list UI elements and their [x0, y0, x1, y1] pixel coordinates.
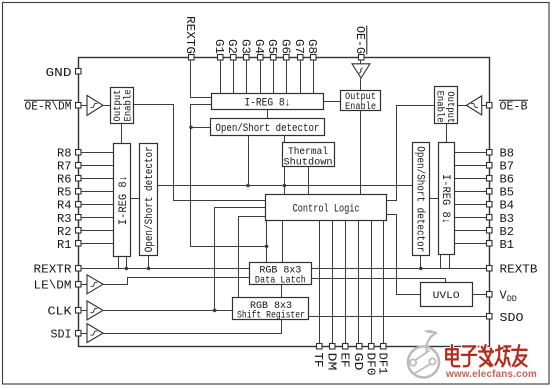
svg-text:Data Latch: Data Latch: [255, 275, 306, 287]
watermark text 电子发烧友: [446, 345, 526, 366]
wire TF: [319, 221, 321, 344]
wire G6: [286, 61, 288, 94]
block Open/Short detector G: [211, 119, 325, 136]
wire G status to Open/Short and Data Latch: [191, 105, 267, 247]
svg-text:DF1: DF1: [375, 353, 389, 375]
pin R6: [57, 173, 81, 187]
wire G enable to I-REG: [324, 101, 341, 103]
svg-text:B4: B4: [500, 199, 515, 213]
wire OE-R buffer to enable box: [103, 105, 111, 107]
pin DF1: [375, 344, 389, 375]
wire R2: [82, 230, 114, 232]
svg-text:www.elecfans.com: www.elecfans.com: [445, 369, 537, 380]
wire I-REG G to Open/Short G link: [267, 110, 269, 119]
pin B5: [487, 186, 515, 200]
block Output Enable G: [341, 91, 381, 113]
wire I-REG B stub b: [449, 255, 451, 269]
junction: [265, 245, 269, 249]
svg-text:G1: G1: [212, 39, 226, 54]
wire R4: [82, 204, 114, 206]
wire I-REG R stub b: [126, 257, 128, 269]
pin R4: [57, 199, 81, 213]
block Output Enable R: [111, 88, 135, 124]
pin B8: [487, 146, 515, 160]
pin LE/DM: [34, 279, 82, 293]
svg-text:OE-G: OE-G: [353, 26, 367, 54]
svg-text:UVLO: UVLO: [433, 290, 460, 302]
wire Control Logic to UVLO: [387, 215, 421, 295]
wire REXTB: [312, 268, 487, 270]
svg-text:Control Logic: Control Logic: [293, 204, 360, 216]
pin DM: [324, 344, 338, 371]
svg-text:R3: R3: [57, 212, 72, 226]
wire DF0: [371, 221, 373, 344]
block UVLO: [421, 283, 473, 307]
wire DF1: [383, 221, 385, 344]
buffer OE-B: [466, 96, 481, 115]
pin G4: [252, 39, 266, 60]
wire EF: [345, 221, 347, 344]
pin GD: [351, 344, 365, 371]
buffer OE-R: [87, 95, 103, 115]
pin SDO: [487, 311, 524, 325]
svg-text:R8: R8: [57, 146, 72, 160]
pin TF: [311, 344, 325, 368]
block I-REG R: [114, 144, 131, 257]
junction: [125, 267, 129, 271]
wire R7: [82, 165, 114, 167]
junction: [189, 126, 193, 130]
wire I-REG R to Open/Short link: [131, 198, 140, 200]
pin R5: [57, 186, 81, 200]
pin DF0: [363, 344, 377, 376]
wire SDI input: [82, 333, 87, 335]
svg-text:DF0: DF0: [363, 353, 377, 376]
wire Open/Short G stub: [191, 127, 211, 129]
svg-text:G8: G8: [305, 39, 319, 54]
wire LE input: [82, 284, 87, 286]
wire Data Latch to UVLO: [312, 279, 446, 283]
svg-text:G3: G3: [239, 39, 253, 54]
wire B8: [455, 152, 487, 154]
wire B3: [455, 217, 487, 219]
buffer OE-G: [352, 64, 370, 78]
pin R1: [57, 238, 81, 252]
wire OE-B buffer to enable box: [458, 105, 467, 107]
wire Data Latch to Shift Register: [281, 285, 283, 298]
svg-text:B3: B3: [500, 212, 515, 226]
pin CLK: [48, 305, 82, 319]
pin REXTR: [34, 263, 82, 277]
wire B5: [455, 191, 487, 193]
svg-text:SDO: SDO: [500, 311, 524, 325]
buffer LE: [87, 275, 103, 294]
svg-text:I-REG 8↓: I-REG 8↓: [118, 175, 130, 225]
pin REXTG: [183, 16, 197, 60]
pin B2: [487, 225, 515, 239]
pin GND: [46, 66, 82, 80]
wire G8: [313, 61, 315, 94]
svg-text:SDI: SDI: [51, 327, 72, 341]
pin OE-R/DM: [24, 100, 81, 114]
wire OE-G pin to buffer: [360, 61, 362, 64]
svg-text:Output: Output: [444, 91, 455, 123]
wire DM: [332, 221, 334, 344]
wire B2: [455, 230, 487, 232]
pin B7: [487, 159, 515, 173]
svg-text:REXTB: REXTB: [500, 263, 538, 277]
wire Open/Short detector output a: [248, 136, 250, 186]
pin R3: [57, 212, 81, 226]
wire Control Logic to Data Latch: [282, 221, 284, 263]
svg-text:G4: G4: [252, 39, 266, 54]
block Open/Short detector R: [140, 144, 158, 256]
svg-text:R7: R7: [57, 159, 72, 173]
svg-text:LE\DM: LE\DM: [34, 279, 72, 293]
pin R2: [57, 225, 81, 239]
svg-text:B7: B7: [500, 159, 515, 173]
wire VDD: [473, 294, 487, 296]
svg-text:DM: DM: [324, 353, 338, 371]
svg-text:Shift Register: Shift Register: [237, 310, 305, 322]
svg-text:B6: B6: [500, 173, 515, 187]
junction: [419, 267, 423, 271]
wire I-REG B stub a: [440, 255, 442, 269]
watermark logo: [408, 330, 439, 377]
IC outline U1: [79, 58, 490, 347]
wire R1: [82, 243, 114, 245]
wire B7: [455, 165, 487, 167]
svg-text:R1: R1: [57, 238, 72, 252]
wire OE-B input: [482, 105, 487, 107]
wire G1: [220, 61, 222, 94]
wire REXTR: [82, 268, 250, 270]
wire R5: [82, 191, 114, 193]
wire B1: [455, 243, 487, 245]
wire SDI to Shift Register: [103, 320, 282, 334]
wire REXTG: [191, 61, 212, 98]
wire R6: [82, 178, 114, 180]
wire OE-G enable to Control Logic: [360, 111, 362, 195]
svg-text:Enable: Enable: [345, 101, 376, 113]
pin VDD: [487, 289, 517, 304]
block Thermal Shutdown: [283, 143, 335, 169]
junction: [147, 267, 151, 271]
svg-text:Enable: Enable: [434, 91, 446, 123]
wire G2: [233, 61, 235, 94]
svg-text:B8: B8: [500, 146, 515, 160]
svg-text:I-REG 8↓: I-REG 8↓: [439, 174, 451, 224]
pin G8: [305, 39, 319, 60]
svg-text:R5: R5: [57, 186, 72, 200]
svg-text:G7: G7: [292, 39, 306, 54]
svg-text:Open/Short detector: Open/Short detector: [144, 146, 156, 252]
svg-text:Open/Short detector: Open/Short detector: [413, 146, 425, 252]
wire G4: [260, 61, 262, 94]
block Open/Short detector B: [413, 143, 430, 256]
wire fault line: [158, 185, 413, 187]
wire B6: [455, 178, 487, 180]
wire R enable stub: [121, 124, 123, 144]
wire Thermal Shutdown to Control Logic: [308, 167, 310, 195]
buffer CLK: [87, 301, 103, 320]
wire SDO: [309, 316, 487, 318]
wire R3: [82, 217, 114, 219]
wire Open/Short R stub: [148, 256, 150, 269]
pin B6: [487, 173, 515, 187]
wire G7: [300, 61, 302, 94]
svg-text:CLK: CLK: [48, 305, 73, 319]
svg-text:G5: G5: [265, 39, 279, 54]
pin G3: [239, 39, 253, 60]
svg-text:I-REG 8↓: I-REG 8↓: [244, 97, 290, 109]
svg-text:REXTG: REXTG: [183, 16, 197, 54]
pin OE-G: [353, 26, 367, 61]
wire CLK to Control Logic: [215, 208, 266, 311]
svg-text:OE-R\DM: OE-R\DM: [25, 100, 72, 114]
pin G1: [212, 39, 226, 60]
svg-text:G6: G6: [279, 39, 293, 54]
pin SDI: [51, 327, 82, 341]
wire G5: [273, 61, 275, 94]
wire Open/Short detector output b: [284, 136, 286, 195]
wire I-REG B to Open/Short link: [430, 198, 439, 200]
pin R7: [57, 159, 81, 173]
pin REXTB: [487, 263, 538, 277]
junction: [283, 184, 287, 188]
wire LE to Data Latch: [103, 278, 250, 285]
svg-text:GD: GD: [351, 353, 365, 371]
wire OE-R enable to Control Logic: [134, 105, 266, 201]
wire Control Logic to Shift Register: [239, 217, 266, 298]
wire G3: [246, 61, 248, 94]
pin G7: [292, 39, 306, 60]
svg-text:B2: B2: [500, 225, 515, 239]
pin R8: [57, 146, 81, 160]
pin B3: [487, 212, 515, 226]
svg-text:GND: GND: [46, 66, 72, 80]
wire CLK to Shift Register: [103, 310, 233, 312]
wire Open/Short B stub: [420, 256, 422, 269]
svg-text:B5: B5: [500, 186, 515, 200]
pin G5: [265, 39, 279, 60]
pin G6: [279, 39, 293, 60]
wire B4: [455, 204, 487, 206]
wire I-REG R stub a: [118, 257, 120, 269]
block Output Enable B: [434, 87, 458, 124]
svg-text:R6: R6: [57, 173, 72, 187]
wire OE-B enable to Control Logic: [387, 106, 435, 201]
junction: [213, 309, 217, 313]
svg-text:REXTR: REXTR: [34, 263, 72, 277]
block RGB Shift Register: [233, 298, 309, 322]
svg-text:EF: EF: [338, 353, 352, 368]
block RGB Data Latch: [250, 263, 312, 287]
svg-text:Shutdown: Shutdown: [284, 156, 333, 168]
svg-text:OE-B: OE-B: [500, 100, 528, 114]
wire Control Logic to Data Latch b: [266, 221, 268, 263]
svg-text:TF: TF: [311, 353, 325, 368]
block I-REG G: [212, 94, 324, 110]
pin B1: [487, 238, 515, 252]
pin OE-B: [487, 100, 529, 114]
wire CLK input: [82, 310, 87, 312]
wire GD: [358, 221, 360, 344]
block Control Logic: [266, 195, 387, 221]
pin EF: [338, 344, 352, 368]
svg-text:Enable: Enable: [123, 90, 135, 122]
svg-text:R4: R4: [57, 199, 72, 213]
pin G2: [225, 39, 239, 60]
svg-text:Open/Short detector: Open/Short detector: [215, 123, 319, 135]
buffer SDI: [87, 324, 103, 343]
svg-text:G2: G2: [225, 39, 239, 54]
wire OE-R input: [82, 105, 87, 107]
svg-text:B1: B1: [500, 238, 515, 252]
svg-text:R2: R2: [57, 225, 72, 239]
wire OE-G buffer to enable box: [360, 79, 362, 91]
junction: [246, 184, 250, 188]
block I-REG B: [439, 143, 455, 255]
pin B4: [487, 199, 515, 213]
wire R8: [82, 152, 114, 154]
wire B enable stub: [446, 124, 448, 143]
